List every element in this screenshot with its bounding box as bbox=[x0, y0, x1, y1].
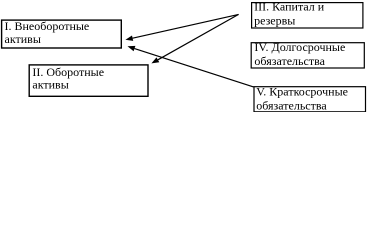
svg-text:активы: активы bbox=[32, 78, 68, 92]
svg-text:III. Капитал и: III. Капитал и bbox=[254, 0, 325, 14]
svg-text:обязательства: обязательства bbox=[256, 99, 327, 112]
svg-text:обязательства: обязательства bbox=[254, 54, 325, 68]
svg-text:IV. Долгосрочные: IV. Долгосрочные bbox=[254, 40, 345, 54]
svg-text:I. Внеоборотные: I. Внеоборотные bbox=[5, 19, 90, 33]
svg-text:резервы: резервы bbox=[254, 14, 295, 28]
svg-text:активы: активы bbox=[5, 32, 41, 46]
svg-text:V. Краткосрочные: V. Краткосрочные bbox=[256, 84, 348, 98]
